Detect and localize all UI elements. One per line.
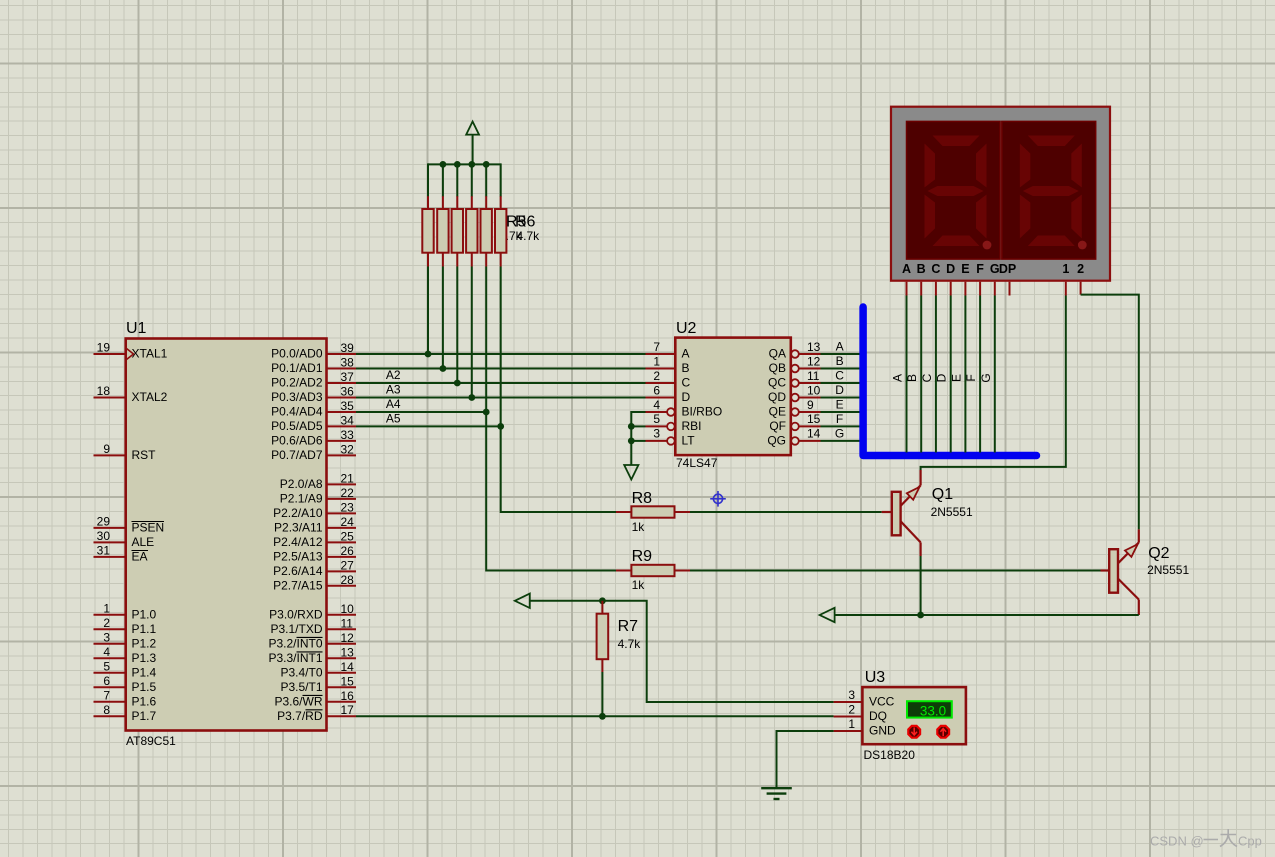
display pin C [935,282,937,296]
svg-text:P0.0/AD0: P0.0/AD0 [271,347,323,361]
wire R3 to P0.2 [456,267,458,384]
wire terminal to R7 top [530,600,603,602]
U2 pin 3 LT [646,427,696,448]
svg-text:33.0: 33.0 [920,703,946,718]
junction LT [628,438,635,445]
svg-text:R9: R9 [632,548,653,565]
svg-text:Cpp: Cpp [1238,834,1262,849]
U1 pin 22 P2.1/A9 [280,486,356,506]
svg-text:P1.2: P1.2 [132,636,157,650]
svg-text:39: 39 [341,341,355,355]
svg-text:F: F [836,412,843,426]
svg-text:A4: A4 [386,397,401,411]
svg-text:R7: R7 [618,618,639,635]
sensor U3 DS18B20 body [862,687,966,744]
wire rail to R1 [427,163,429,196]
U1 pin 18 XTAL2 [94,384,168,404]
U1 pin 33 P0.6/AD6 [271,428,356,448]
wire R5 to P0.4 [485,267,487,413]
svg-text:B: B [682,361,690,375]
svg-text:1k: 1k [632,520,646,534]
svg-text:2N5551: 2N5551 [1147,563,1189,577]
junction P0.5 column [497,423,504,430]
wire R8 to Q1 base [690,511,882,513]
wire emitter rail [835,614,1139,616]
U1 pin 3 P1.2 [94,631,157,651]
U1 pin 35 P0.4/AD4 [271,399,356,419]
wire display E to bus [964,296,966,453]
svg-text:A: A [891,374,905,382]
junction P0.1 column [440,365,447,372]
junction P0.2 column [454,380,461,387]
junction top rail [483,161,490,168]
svg-text:P0.6/AD6: P0.6/AD6 [271,434,323,448]
svg-text:DP: DP [999,262,1016,276]
bus (7-segment data) [863,307,1036,456]
svg-text:AT89C51: AT89C51 [126,734,176,748]
svg-text:9: 9 [807,398,814,412]
junction Q1 emitter [917,612,924,619]
microcontroller U1 AT89C51 body [126,339,327,731]
svg-text:13: 13 [341,645,355,659]
U1 pin 2 P1.1 [94,616,157,636]
svg-text:P1.3: P1.3 [132,651,157,665]
svg-text:33: 33 [341,428,355,442]
svg-text:15: 15 [807,412,821,426]
U2 pin 7 A [646,340,690,361]
resistor R1 4.7k [422,196,433,266]
svg-text:P0.2/AD2: P0.2/AD2 [271,376,323,390]
resistor R7 4.7k [597,601,609,672]
svg-text:2: 2 [103,616,110,630]
wire P0.1 to U2.B [356,368,646,370]
svg-text:P3.5/T1: P3.5/T1 [280,680,322,694]
U1 pin 13 P3.3/INT1 [268,645,356,665]
svg-text:38: 38 [341,356,355,370]
svg-text:26: 26 [341,544,355,558]
wire rail to R5 [485,163,487,196]
resistor R4 4.7k [466,196,477,266]
U1 pin 31 EA [94,544,149,564]
svg-text:RST: RST [132,448,157,462]
junction R7 top [599,597,606,604]
svg-text:R8: R8 [632,490,653,507]
U1 pin 38 P0.1/AD1 [271,356,356,376]
U3 temperature LCD 33.0 [907,701,952,718]
svg-text:1: 1 [848,717,855,731]
svg-text:P3.1/TXD: P3.1/TXD [270,622,322,636]
U1 pin 25 P2.4/A12 [273,529,356,549]
svg-text:37: 37 [341,370,355,384]
svg-text:VCC: VCC [869,695,895,709]
U1 pin 21 P2.0/A8 [280,471,356,491]
wire R1 to P0.0 [427,267,429,355]
svg-text:7: 7 [653,340,660,354]
U2 pin 4 BI/RBO [646,398,723,419]
svg-text:DQ: DQ [869,709,887,723]
svg-text:P1.4: P1.4 [132,665,157,679]
wire R9 to Q2 base [690,570,1101,572]
svg-text:5: 5 [653,412,660,426]
svg-text:12: 12 [341,631,355,645]
svg-text:11: 11 [341,616,354,630]
svg-text:A2: A2 [386,368,401,382]
U1 pin 23 P2.2/A10 [273,500,356,520]
U1 pin 32 P0.7/AD7 [271,442,356,462]
svg-text:6: 6 [653,383,660,397]
svg-text:23: 23 [341,500,355,514]
watermark CSDN [1150,829,1262,849]
svg-text:BI/RBO: BI/RBO [682,405,723,419]
U1 pin 30 ALE [94,529,155,549]
wire rail to R2 [442,163,444,196]
wire column to R9 [486,412,616,571]
svg-text:D: D [682,390,691,404]
junction RBI [628,423,635,430]
wire top rail [428,163,501,165]
svg-text:A: A [836,339,844,353]
svg-text:U1: U1 [126,320,147,337]
resistor R5 4.7k [481,196,492,266]
svg-text:QB: QB [769,361,786,375]
wire column to R8 [501,426,616,512]
U2 pin 11 QC [768,369,821,390]
display pin B [920,282,922,296]
svg-text:G: G [979,373,993,382]
wire U2.QF to bus [821,425,861,427]
svg-text:DS18B20: DS18B20 [864,748,916,762]
U1 pin 37 P0.2/AD2 [271,370,356,390]
svg-text:2: 2 [848,702,855,716]
svg-text:A5: A5 [386,411,401,425]
wire display pin1 to Q1 collector [921,296,1066,471]
wire U2.QA to bus [821,353,861,355]
wire P0.5 toward R8 [356,425,501,427]
svg-text:1: 1 [1062,262,1069,276]
resistor R9 1k [616,565,690,576]
wire BI/RBO RBI LT to ground [631,412,645,465]
U3 pin 1 GND [834,717,896,738]
resistor R3 4.7k [452,196,463,266]
junction top rail [440,161,447,168]
svg-text:P3.6/WR: P3.6/WR [274,694,322,708]
wire P3.7 to U3 DQ [356,715,834,717]
U2 pin 9 QE [769,398,821,419]
U1 pin 12 P3.2/INT0 [268,631,356,651]
svg-text:34: 34 [341,413,355,427]
wire display A to bus [906,296,908,453]
wire P0.4 toward R9 [356,411,486,413]
svg-text:10: 10 [341,602,355,616]
svg-text:P2.7/A15: P2.7/A15 [273,578,323,592]
svg-text:P2.6/A14: P2.6/A14 [273,564,323,578]
U1 pin 36 P0.3/AD3 [271,385,356,405]
svg-text:3: 3 [653,427,660,441]
svg-text:2N5551: 2N5551 [931,505,973,519]
svg-text:16: 16 [341,689,355,703]
wire P0.2 to U2.C [356,382,646,384]
svg-text:F: F [976,262,984,276]
svg-text:19: 19 [97,341,111,355]
svg-text:B: B [917,262,926,276]
junction P0.3 column [468,394,475,401]
svg-text:27: 27 [341,558,355,572]
svg-text:10: 10 [807,383,821,397]
svg-text:P2.3/A11: P2.3/A11 [274,521,323,535]
svg-text:B: B [836,354,844,368]
wire U2.QD to bus [821,397,861,399]
svg-text:12: 12 [807,354,821,368]
svg-text:RBI: RBI [682,419,702,433]
svg-text:F: F [964,374,978,381]
transistor Q1 2N5551 [882,470,921,556]
terminal arrow (R7 top) [515,594,530,608]
wire display G to bus [994,296,996,453]
U2 pin 1 B [646,354,690,375]
wire R2 to P0.1 [442,267,444,369]
U3 pin 3 VCC [834,688,895,709]
U2 pin 2 C [646,369,691,390]
U1 pin 27 P2.6/A14 [273,558,356,578]
svg-text:P0.4/AD4: P0.4/AD4 [271,405,323,419]
junction top rail [468,161,475,168]
svg-text:R6: R6 [515,214,536,231]
svg-text:8: 8 [103,703,110,717]
svg-text:25: 25 [341,529,355,543]
svg-text:ALE: ALE [132,535,155,549]
U1 pin 28 P2.7/A15 [273,573,356,593]
svg-text:6: 6 [103,674,110,688]
ground arrow under U2 [624,465,638,480]
U1 pin 1 P1.0 [94,602,157,622]
U1 pin 7 P1.6 [94,689,157,709]
origin marker crosshair [710,491,726,507]
svg-text:A3: A3 [386,383,401,397]
display pin D [950,282,952,296]
U1 pin 34 P0.5/AD5 [271,413,356,433]
display digit 2 decimal point [1078,241,1087,250]
U1 pin 4 P1.3 [94,645,157,665]
resistor R6 4.7k [495,196,506,266]
display pin G [994,282,996,296]
U1 pin 8 P1.7 [94,703,157,723]
wire P0.0 to U2.A [356,353,646,355]
svg-text:P0.7/AD7: P0.7/AD7 [271,448,323,462]
svg-text:30: 30 [97,529,111,543]
svg-text:XTAL1: XTAL1 [132,347,168,361]
U1 pin 14 P3.4/T0 [280,660,356,680]
wire display B to bus [920,296,922,453]
display pin E [964,282,966,296]
svg-text:P2.4/A12: P2.4/A12 [273,535,323,549]
display digit 1 decimal point [983,241,992,250]
junction P0.4 column [483,409,490,416]
display DS1 7SEG-MPX2 body [891,107,1110,281]
U3 button up [937,726,949,738]
wire rail to R6 [500,163,502,196]
svg-text:C: C [682,376,691,390]
U2 pin 13 QA [769,340,821,361]
U1 pin 15 P3.5/T1 [280,674,356,694]
svg-text:74LS47: 74LS47 [676,456,718,470]
svg-text:4.7k: 4.7k [618,637,642,651]
svg-text:B: B [905,374,919,382]
svg-text:21: 21 [341,471,355,485]
display pin 1 [1065,282,1067,296]
U3 pin 2 DQ [834,702,887,723]
svg-text:P2.5/A13: P2.5/A13 [273,550,323,564]
svg-text:24: 24 [341,515,355,529]
svg-text:1k: 1k [632,578,646,592]
svg-text:D: D [835,383,844,397]
wire display pin2 to Q2 collector [1081,295,1139,530]
svg-text:P2.1/A9: P2.1/A9 [280,492,323,506]
U2 pin 6 D [646,383,691,404]
svg-text:32: 32 [341,442,355,456]
U1 pin 11 P3.1/TXD [270,616,356,636]
svg-text:31: 31 [97,544,111,558]
svg-text:P3.3/INT1: P3.3/INT1 [268,651,322,665]
wire Q1 emitter down [920,556,922,615]
wire R4 to P0.3 [471,267,473,398]
junction R7 bottom [599,713,606,720]
display pin 2 [1080,282,1082,295]
display pin A [906,282,908,296]
display digit 2 segments [1020,136,1082,247]
wire R7 bottom to DQ net [601,672,603,716]
svg-text:P2.0/A8: P2.0/A8 [280,477,323,491]
svg-text:P2.2/A10: P2.2/A10 [273,506,323,520]
U2 pin 15 QF [769,412,820,433]
resistor R8 1k [616,506,690,517]
svg-text:P0.3/AD3: P0.3/AD3 [271,390,323,404]
power terminal VCC arrow [466,122,479,165]
display digit 1 segments [925,136,987,247]
U1 pin 17 P3.7/RD [277,703,356,723]
wire U2.QB to bus [821,368,861,370]
svg-text:36: 36 [341,385,355,399]
U3 button down [908,726,920,738]
svg-text:E: E [961,262,969,276]
svg-text:3: 3 [848,688,855,702]
svg-text:29: 29 [97,515,111,529]
wire R6 to P0.5 [500,267,502,427]
U1 pin 19 XTAL1 [94,341,168,361]
wire display F to bus [979,296,981,453]
U2 pin 10 QD [768,383,821,404]
U1 pin 26 P2.5/A13 [273,544,356,564]
terminal arrow (emitter rail) [820,608,835,622]
U1 pin 5 P1.4 [94,660,157,680]
svg-text:14: 14 [807,427,821,441]
U1 pin 29 PSEN [94,515,165,535]
junction P0.0 column [425,351,432,358]
U2 pin 5 RBI [646,412,702,433]
svg-text:QD: QD [768,390,786,404]
svg-text:C: C [920,373,934,382]
svg-text:22: 22 [341,486,355,500]
svg-text:P1.0: P1.0 [132,607,157,621]
svg-text:C: C [931,262,940,276]
U1 pin 39 P0.0/AD0 [271,341,356,361]
svg-text:GND: GND [869,724,896,738]
svg-text:13: 13 [807,340,821,354]
svg-text:P1.6: P1.6 [132,694,157,708]
svg-text:QA: QA [769,347,786,361]
svg-text:PSEN: PSEN [132,521,165,535]
svg-text:D: D [946,262,955,276]
resistor R2 4.7k [437,196,448,266]
display pin DP [1009,282,1011,296]
svg-text:15: 15 [341,674,355,688]
svg-text:7: 7 [103,689,110,703]
U1 pin 6 P1.5 [94,674,157,694]
svg-text:1: 1 [653,354,660,368]
svg-text:9: 9 [103,442,110,456]
svg-text:QC: QC [768,376,786,390]
svg-text:3: 3 [103,631,110,645]
svg-text:4: 4 [653,398,660,412]
svg-text:2: 2 [653,369,660,383]
wire U3 GND to ground [777,731,834,788]
U1 pin 10 P3.0/RXD [269,602,356,622]
svg-text:CSDN @: CSDN @ [1150,834,1204,849]
svg-text:G: G [835,426,844,440]
display pin F [979,282,981,296]
svg-text:28: 28 [341,573,355,587]
wire R7 top to U3 VCC [602,601,833,702]
svg-text:P3.7/RD: P3.7/RD [277,709,323,723]
wire U2.QC to bus [821,382,861,384]
junction top rail [454,161,461,168]
ground symbol [761,788,792,799]
svg-text:D: D [935,373,949,382]
svg-text:18: 18 [97,384,111,398]
wire P0.3 to U2.D [356,397,646,399]
svg-text:P1.5: P1.5 [132,680,157,694]
svg-text:35: 35 [341,399,355,413]
svg-text:5: 5 [103,660,110,674]
U1 pin 9 RST [94,442,157,462]
svg-text:EA: EA [132,550,148,564]
wire display C to bus [935,296,937,453]
svg-text:P0.5/AD5: P0.5/AD5 [271,419,323,433]
svg-text:P3.4/T0: P3.4/T0 [280,665,322,679]
svg-text:Q1: Q1 [932,486,953,503]
svg-text:QE: QE [769,405,786,419]
transistor Q2 2N5551 [1101,529,1139,615]
svg-text:P3.0/RXD: P3.0/RXD [269,607,323,621]
svg-text:QF: QF [769,419,786,433]
wire rail to R3 [456,163,458,196]
svg-text:14: 14 [341,660,355,674]
svg-text:2: 2 [1077,262,1084,276]
svg-text:U2: U2 [676,320,697,337]
svg-text:A: A [902,262,911,276]
svg-text:P1.1: P1.1 [132,622,157,636]
wire display D to bus [950,296,952,453]
svg-text:1: 1 [103,602,110,616]
svg-text:Q2: Q2 [1148,545,1169,562]
svg-text:A: A [682,347,690,361]
svg-text:E: E [836,397,844,411]
svg-text:LT: LT [682,434,696,448]
U1 pin 16 P3.6/WR [274,689,356,709]
svg-text:U3: U3 [865,669,886,686]
svg-text:E: E [949,374,963,382]
svg-text:17: 17 [341,703,355,717]
wire U2.QE to bus [821,411,861,413]
